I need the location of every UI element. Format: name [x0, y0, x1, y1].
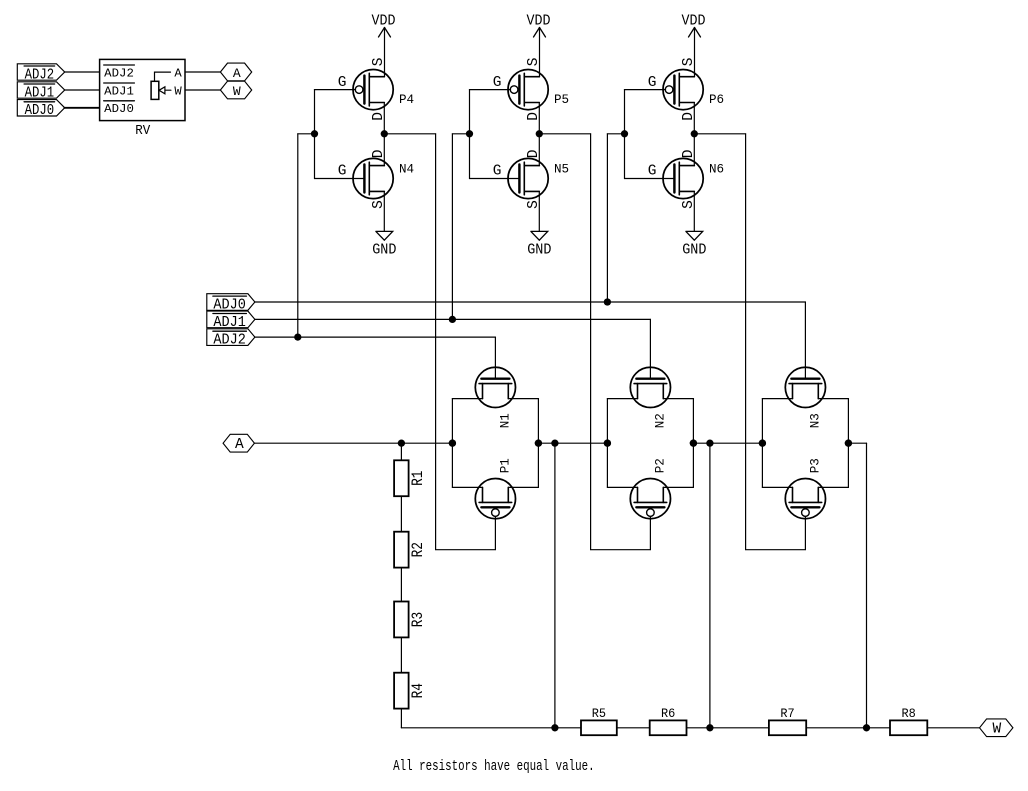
svg-text:G: G [338, 164, 347, 180]
svg-text:S: S [371, 200, 387, 209]
svg-text:D: D [526, 112, 542, 121]
svg-text:VDD: VDD [527, 13, 551, 29]
svg-text:R8: R8 [901, 706, 915, 721]
svg-text:S: S [681, 200, 697, 209]
svg-text:ADJ0: ADJ0 [25, 103, 54, 119]
svg-text:R6: R6 [661, 706, 675, 721]
svg-text:GND: GND [527, 243, 551, 259]
svg-text:VDD: VDD [372, 13, 396, 29]
svg-text:G: G [338, 75, 347, 91]
svg-text:N6: N6 [709, 162, 724, 177]
svg-text:P3: P3 [808, 458, 823, 473]
svg-text:P4: P4 [399, 92, 414, 107]
svg-text:D: D [526, 150, 542, 159]
svg-text:P5: P5 [554, 92, 569, 107]
svg-text:R3: R3 [409, 612, 427, 627]
svg-text:W: W [174, 85, 182, 99]
svg-text:P2: P2 [653, 458, 668, 473]
svg-text:GND: GND [682, 243, 706, 259]
svg-text:P1: P1 [498, 458, 513, 473]
svg-text:ADJ1: ADJ1 [25, 85, 54, 101]
svg-text:N5: N5 [554, 162, 569, 177]
svg-text:R1: R1 [409, 471, 427, 486]
svg-text:R5: R5 [592, 706, 606, 721]
svg-text:D: D [681, 150, 697, 159]
svg-text:N2: N2 [653, 413, 668, 428]
svg-text:ADJ1: ADJ1 [104, 84, 134, 98]
svg-text:G: G [493, 164, 502, 180]
svg-text:S: S [526, 200, 542, 209]
svg-text:G: G [648, 164, 657, 180]
svg-text:D: D [681, 112, 697, 121]
svg-text:W: W [233, 84, 241, 99]
svg-text:N1: N1 [498, 413, 513, 428]
svg-text:D: D [371, 150, 387, 159]
svg-text:ADJ2: ADJ2 [104, 66, 134, 80]
svg-text:RV: RV [135, 123, 151, 139]
svg-text:All resistors have equal value: All resistors have equal value. [393, 758, 594, 775]
svg-text:G: G [493, 75, 502, 91]
svg-text:R4: R4 [409, 683, 427, 698]
svg-text:VDD: VDD [682, 13, 706, 29]
svg-text:A: A [174, 67, 182, 81]
svg-text:R7: R7 [780, 706, 794, 721]
svg-text:P6: P6 [709, 92, 724, 107]
svg-text:S: S [371, 58, 387, 67]
svg-text:A: A [235, 437, 244, 453]
svg-text:ADJ0: ADJ0 [104, 102, 134, 116]
svg-text:ADJ2: ADJ2 [213, 333, 246, 349]
svg-text:GND: GND [372, 243, 396, 259]
svg-text:S: S [526, 58, 542, 67]
svg-text:N4: N4 [399, 162, 414, 177]
svg-text:G: G [648, 75, 657, 91]
svg-text:N3: N3 [808, 413, 823, 428]
svg-text:S: S [681, 58, 697, 67]
svg-text:D: D [371, 112, 387, 121]
svg-text:A: A [233, 66, 241, 81]
svg-text:R2: R2 [409, 542, 427, 557]
svg-text:W: W [993, 722, 1002, 738]
svg-text:ADJ2: ADJ2 [25, 67, 54, 83]
